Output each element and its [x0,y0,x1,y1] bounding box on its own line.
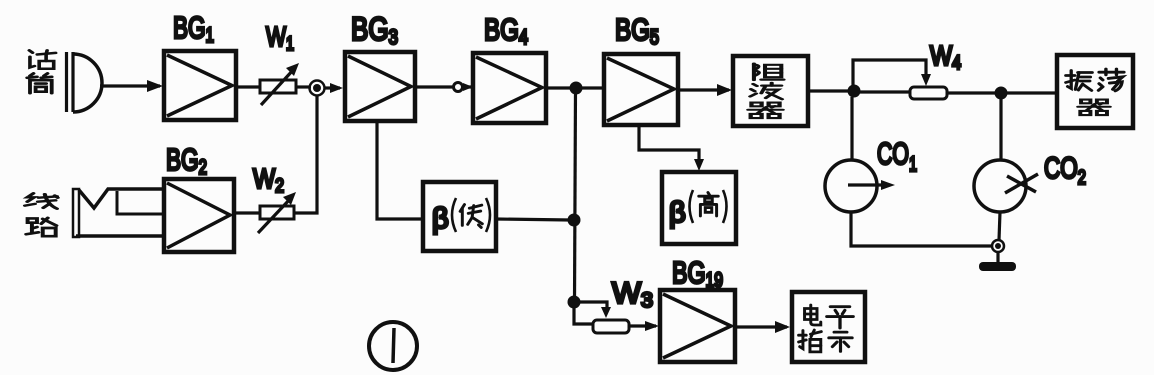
figure number 1 [369,322,417,370]
jack CO2 [974,160,1038,212]
label 线路 [25,193,58,236]
wire beta-low to node F [496,219,570,220]
amplifier BG3 [345,52,415,121]
wire CO2 to ground node [999,212,1000,240]
box line trap 阻波器 [733,56,808,126]
label 振荡器 [1066,69,1124,115]
wire BG3 to BG4 [415,85,473,88]
amplifier BG19 [660,290,735,362]
jack CO1 [825,160,895,212]
svg-text:β: β [432,203,449,235]
connector circle before BG4 [454,83,463,92]
line jack symbol [73,189,164,237]
wire CO1 to ground bus [851,212,992,246]
wire BG5 down to beta-high [639,125,699,166]
microphone [67,52,102,112]
wire BG3 to beta-low [377,121,423,219]
wire node C to W3 left [574,308,594,324]
arrowhead into BG3 [330,83,343,93]
node A junction [310,81,325,96]
node F junction [568,214,581,227]
wire node E down to jack CO2 [999,99,1002,160]
wire BG1 to W1 [236,85,262,88]
label 电平指示 [799,305,854,352]
arrowhead onto W3 [601,307,611,318]
node E junction [995,87,1008,100]
wire BG5 to line trap [678,88,729,91]
wire node D down to jack CO1 [850,97,853,161]
W4 wiper bypass wire [853,60,926,86]
node B junction [570,82,583,95]
label beta-low [432,198,490,235]
potentiometer W4 [910,87,947,99]
box beta-low [423,182,496,251]
arrowhead into BG19 [645,321,659,331]
wire BG2 to W2 [234,211,262,214]
arrowhead into line trap [717,84,732,96]
node D junction [848,85,861,98]
wire line trap to node D [808,89,850,92]
svg-text:β: β [669,197,686,229]
box level indicator [792,292,865,362]
wire mic to BG1 [100,84,160,87]
potentiometer W3 [593,320,629,333]
label 话筒 [27,50,55,93]
potentiometer W2 [258,192,296,233]
arrowhead into level indicator [775,321,790,333]
wire W3 to BG19 [629,324,656,327]
wire BG19 to level indicator [735,325,787,328]
wire node E to oscillator [1007,91,1057,94]
arrowhead into BG1 [147,80,163,92]
amplifier BG4 [473,53,546,123]
arrowhead into BG4 [463,83,473,91]
label beta-high [669,190,727,229]
box beta-high [662,172,736,244]
amplifier BG2 [164,179,234,252]
ground [979,252,1016,271]
W3 wiper wire [580,302,607,310]
label 阻波器 [748,64,783,119]
amplifier BG1 [164,51,236,120]
arrowhead into beta-high [694,159,704,171]
amplifier BG5 [604,54,678,125]
wire BG4 to BG5 [546,86,604,89]
wire W1 to node A [296,85,311,88]
ground node junction [992,240,1004,252]
wire node B down to node C [575,88,576,302]
wire node A to BG3 [325,86,340,89]
potentiometer W1 [260,63,299,105]
arrowhead onto W4 [921,74,931,86]
wire node D through W4 [860,92,996,93]
wire W2 to node A riser [294,96,317,213]
box oscillator 振荡器 [1057,55,1133,128]
node C junction [568,296,581,309]
